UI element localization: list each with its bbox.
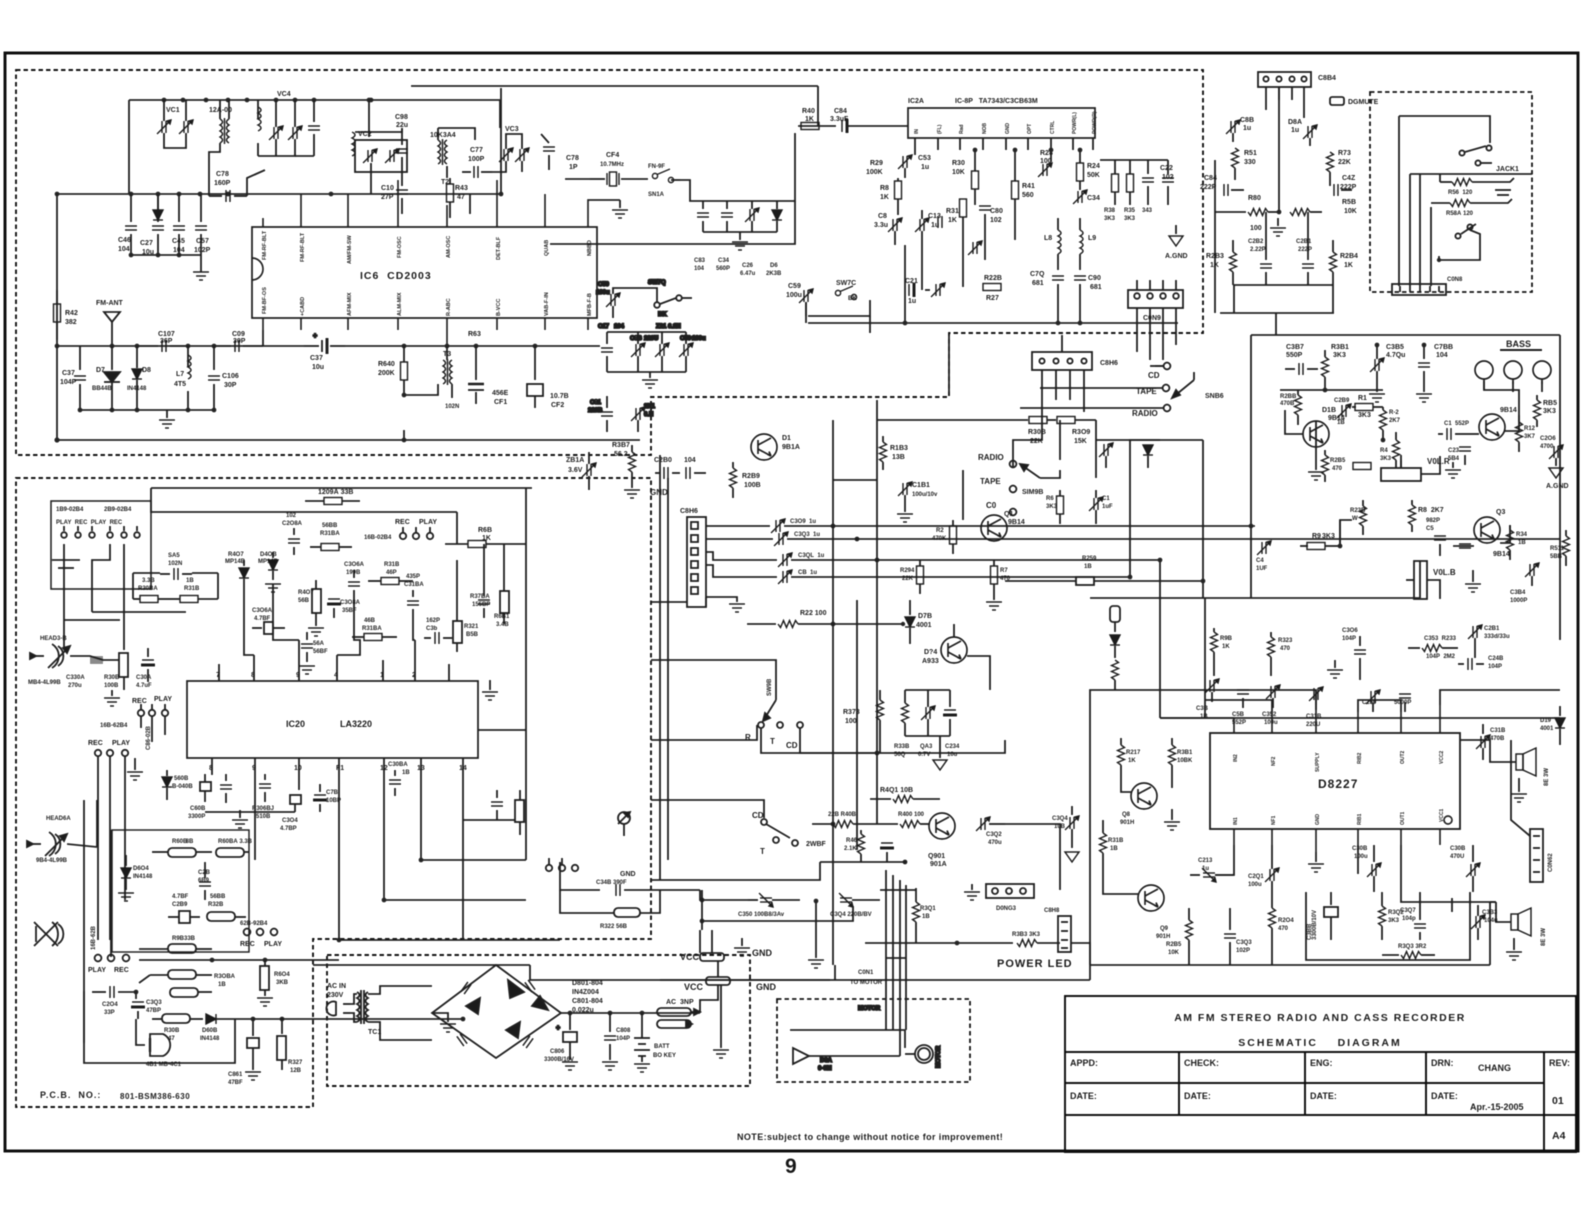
svg-text:4B1 MB-4C1: 4B1 MB-4C1 [146, 1062, 182, 1068]
ground bridge left [432, 1013, 456, 1032]
capacitor C2B 6B9 [199, 862, 211, 900]
capacitor C107 36P [137, 340, 188, 352]
electrolytic C861 47BF [247, 1019, 259, 1070]
svg-text:C8B: C8B [1240, 117, 1254, 124]
capacitor C10 27P [396, 172, 408, 214]
svg-text:C330A: C330A [66, 675, 85, 681]
svg-text:1B: 1B [186, 578, 194, 584]
svg-text:R43: R43 [455, 185, 468, 192]
svg-text:R31B: R31B [184, 586, 200, 592]
ground batt [634, 1064, 650, 1072]
wire mpx left vert [1214, 160, 1216, 313]
svg-text:C8H6: C8H6 [1100, 360, 1118, 367]
resistor R31BA 56BB [310, 544, 352, 551]
svg-text:IN: IN [914, 129, 920, 134]
svg-text:R22 100: R22 100 [800, 610, 827, 617]
diode QA3 0.7V [921, 690, 935, 736]
wire sp1 link [1460, 740, 1516, 762]
svg-text:C7B: C7B [326, 790, 339, 796]
svg-text:R217: R217 [1126, 750, 1141, 756]
ground sp2 [1506, 938, 1522, 960]
wire radio row long [1020, 407, 1164, 409]
capacitor C3B5 4.7Qu [1370, 345, 1384, 385]
wire vert x369 [368, 100, 370, 137]
svg-text:C37: C37 [62, 370, 75, 377]
svg-text:ZB1A: ZB1A [566, 457, 584, 464]
svg-text:R32B: R32B [208, 902, 224, 908]
svg-text:R3O9: R3O9 [1072, 429, 1090, 436]
wire bass drop [1484, 381, 1519, 415]
resistor R22 100 [747, 621, 905, 628]
svg-text:8E 3W: 8E 3W [1544, 768, 1550, 786]
svg-text:200K: 200K [378, 370, 395, 377]
wire amp left vert [1250, 335, 1252, 598]
op-amp U3 tape IC body [187, 681, 478, 758]
svg-text:R31B: R31B [384, 562, 400, 568]
svg-text:30P: 30P [233, 338, 246, 345]
svg-text:D19: D19 [1540, 718, 1552, 724]
svg-text:9B1A: 9B1A [782, 444, 800, 451]
node dots psu [568, 1011, 645, 1016]
svg-text:BATT: BATT [654, 1044, 670, 1050]
wire to IC pin [262, 330, 264, 346]
wire lower vert left [1204, 598, 1206, 718]
svg-text:9: 9 [785, 1155, 797, 1178]
ceramic filter CF2 10.7B [527, 346, 543, 408]
wire caps bottom rail [131, 254, 201, 256]
svg-text:104P: 104P [60, 379, 77, 386]
tuner section dashed frame [16, 70, 1203, 455]
wire mpx bottom rail long [808, 322, 1178, 324]
svg-text:R7: R7 [1000, 568, 1008, 574]
svg-text:3K3: 3K3 [1358, 412, 1371, 419]
svg-text:C2O4: C2O4 [102, 1002, 118, 1008]
IC6 bottom pin stubs [263, 318, 588, 345]
resistor R94 1B [1507, 525, 1514, 560]
wire rib1 [1357, 845, 1359, 874]
svg-text:RIB1: RIB1 [1357, 813, 1363, 825]
svg-text:Q9: Q9 [1160, 926, 1169, 932]
svg-text:D9A: D9A [820, 1058, 833, 1064]
capacitor C1 552P [1438, 428, 1463, 440]
svg-text:L7: L7 [176, 371, 184, 378]
svg-text:1u: 1u [921, 164, 929, 171]
svg-text:1u: 1u [931, 222, 939, 229]
switch jack sw2 [1437, 224, 1480, 262]
wire bottom bus drop [1489, 902, 1491, 965]
svg-text:6B9: 6B9 [198, 878, 210, 884]
capacitor C350 100B8/3Av [748, 893, 800, 907]
capacitor C4Z 222P [1334, 184, 1352, 196]
svg-text:GND: GND [1005, 123, 1011, 135]
svg-text:C3Q4: C3Q4 [1052, 816, 1068, 822]
resistor R22B R27 [983, 284, 1001, 291]
svg-text:R323: R323 [1278, 638, 1293, 644]
capacitor C7B 160P [209, 160, 265, 202]
svg-text:30P: 30P [224, 382, 237, 389]
svg-text:C46: C46 [118, 237, 131, 244]
svg-text:C34B 390F: C34B 390F [596, 880, 627, 886]
capacitor C90 681 [1074, 276, 1086, 296]
wire power row [1071, 943, 1090, 965]
resistor R2B3 1K [1230, 240, 1237, 285]
svg-text:3K7: 3K7 [1524, 434, 1536, 440]
svg-text:470u: 470u [988, 840, 1002, 846]
svg-text:2K1: 2K1 [644, 404, 656, 410]
svg-text:JACK1: JACK1 [1496, 166, 1519, 173]
wire center vertical x857 [856, 600, 858, 850]
svg-text:VCC: VCC [684, 982, 704, 992]
svg-text:QA3: QA3 [920, 744, 933, 750]
transistor Q3 [1474, 517, 1500, 543]
capacitor C250 1000P [1366, 690, 1380, 712]
svg-text:4: 4 [334, 672, 338, 679]
resistor R321 B5B [453, 610, 462, 652]
resistor R43 47 [447, 178, 454, 218]
svg-text:C24B: C24B [1488, 656, 1504, 662]
svg-text:1K: 1K [482, 535, 491, 542]
svg-text:BK: BK [658, 312, 667, 318]
wire lower row [820, 861, 905, 863]
svg-text:SW7Q: SW7Q [648, 280, 666, 286]
svg-text:C350 100B8/3Av: C350 100B8/3Av [738, 912, 785, 918]
svg-text:C3Q2: C3Q2 [986, 832, 1002, 838]
node dots center cross [831, 524, 908, 865]
svg-text:2B9-02B4: 2B9-02B4 [104, 507, 132, 513]
svg-text:C1: C1 [1102, 496, 1110, 502]
capacitor C22 102 [1162, 160, 1174, 205]
svg-text:1000P: 1000P [1510, 598, 1527, 604]
capacitor C106 30P [208, 346, 220, 410]
wire con9 drops [1137, 308, 1176, 360]
transistor Q1 9014 [981, 515, 1007, 541]
svg-text:456E: 456E [492, 390, 509, 397]
wire voll [1427, 580, 1440, 599]
svg-text:TAPE: TAPE [980, 477, 1001, 486]
svg-text:4.7BF: 4.7BF [172, 894, 189, 900]
varicap pair VC4 [258, 100, 302, 156]
wire mid links [1013, 420, 1042, 467]
pads REC/PLAY row2 [138, 704, 168, 716]
svg-text:C53: C53 [918, 155, 931, 162]
resistor R81 zig [1290, 209, 1322, 216]
svg-text:R2B9: R2B9 [742, 473, 760, 480]
wire jack verticals [1399, 116, 1431, 286]
svg-text:REC: REC [88, 740, 103, 747]
svg-text:R4: R4 [1380, 448, 1388, 454]
wire box1 step drop [948, 335, 950, 393]
svg-text:1uF: 1uF [1102, 504, 1113, 510]
svg-text:C3Q3: C3Q3 [146, 1000, 162, 1006]
capacitor C306 104P [1354, 636, 1366, 670]
capacitor C3B 1B [1205, 679, 1219, 702]
svg-text:T: T [760, 847, 765, 856]
svg-text:3.6V: 3.6V [568, 467, 583, 474]
capacitor C31B 470B [1476, 724, 1490, 760]
resistor R6O4 3KB [260, 960, 269, 996]
svg-text:9B14: 9B14 [1500, 407, 1517, 414]
wire mpx bottom [1233, 284, 1333, 286]
svg-text:470B: 470B [1490, 736, 1505, 742]
wire sp2 link [1496, 902, 1511, 922]
svg-text:R3OBA: R3OBA [214, 974, 236, 980]
svg-text:IC-8P TA7343/C3CB63M: IC-8P TA7343/C3CB63M [955, 98, 1038, 105]
svg-text:2K3B: 2K3B [766, 271, 782, 277]
svg-text:1B: 1B [922, 914, 930, 920]
resistor R3B3 3K3 [955, 940, 1060, 947]
svg-text:TO MOTOR: TO MOTOR [850, 980, 883, 986]
svg-text:A.GND: A.GND [1546, 483, 1569, 490]
diode D19 4001 [1555, 706, 1565, 745]
switch SW1A [652, 169, 680, 183]
coil L4 [352, 132, 355, 156]
wire motor verts [886, 999, 906, 1056]
svg-text:102: 102 [286, 513, 297, 519]
svg-text:C0N9: C0N9 [1143, 315, 1161, 322]
svg-text:C2B2: C2B2 [1248, 239, 1264, 245]
resistor R90 1K [1211, 628, 1218, 662]
capacitor C6B 13P [295, 100, 320, 156]
svg-text:V0L.B: V0L.B [1433, 568, 1456, 577]
wire nf1 [1271, 845, 1273, 869]
svg-text:100u: 100u [692, 336, 706, 342]
wire bridge out [561, 1012, 700, 1014]
svg-text:R8 2K7: R8 2K7 [1418, 507, 1444, 514]
varicap VC2 block [355, 140, 407, 172]
capacitor R37BA 155BP [478, 590, 490, 618]
ground bypass [732, 232, 748, 250]
svg-text:C3B5: C3B5 [1386, 344, 1404, 351]
capacitor C3Q2 470u [976, 817, 1005, 831]
svg-text:33P: 33P [104, 1010, 115, 1016]
varicap C3QL 1u [778, 553, 1160, 567]
svg-text:C34: C34 [718, 258, 730, 264]
capacitor C3B4 100BP [1525, 563, 1539, 586]
svg-text:T: T [770, 737, 775, 746]
svg-text:IN2: IN2 [1233, 754, 1239, 762]
svg-text:Apr.-15-2005: Apr.-15-2005 [1470, 1102, 1524, 1112]
wire pin8 [588, 200, 620, 218]
plug DGMUTE [1330, 97, 1344, 105]
svg-text:VC3: VC3 [505, 126, 519, 133]
svg-text:36P: 36P [160, 338, 173, 345]
svg-text:C30B: C30B [1450, 846, 1466, 852]
node dots low [134, 990, 285, 1022]
wire mpx bottom long [1220, 312, 1334, 314]
svg-text:OUT2: OUT2 [1400, 750, 1406, 764]
svg-text:R8: R8 [880, 185, 889, 192]
wire SW1A to bypass row [680, 133, 795, 201]
svg-text:56BB: 56BB [210, 894, 226, 900]
wire c8h6 top link [1061, 335, 1063, 352]
svg-text:NF1: NF1 [1271, 815, 1277, 825]
svg-text:VC2: VC2 [358, 131, 372, 138]
svg-text:1B: 1B [402, 770, 410, 776]
svg-text:22B R40B: 22B R40B [828, 812, 857, 818]
ground agnd j [1065, 852, 1079, 862]
transformer T2 10K3A4 [438, 128, 475, 178]
wire lower row drops [1271, 648, 1475, 680]
wire bottom long bus [1090, 964, 1490, 966]
resistor R373 100 [877, 690, 884, 753]
svg-text:C107: C107 [158, 331, 175, 338]
capacitor C2O4 33P [92, 986, 136, 998]
varicap VC1 [157, 100, 193, 148]
node dots tape low [337, 858, 466, 1022]
svg-text:22K: 22K [1338, 159, 1351, 166]
wire pads col3 [123, 544, 125, 650]
resistor R327 12B [277, 1019, 286, 1070]
wire mpx row2 [1215, 211, 1246, 213]
svg-text:C8B4: C8B4 [1318, 75, 1336, 82]
coil L7 4T5 [188, 346, 191, 410]
svg-text:1K: 1K [880, 194, 889, 201]
ground c350 [808, 901, 824, 968]
svg-text:RB5: RB5 [1543, 400, 1557, 407]
resistor R30 10K [972, 150, 979, 205]
wire sa5 row [133, 572, 160, 574]
pin labels D8227 bottom rotated [1233, 808, 1445, 825]
wire volr-q2 [1421, 456, 1440, 474]
svg-text:SW7C: SW7C [836, 280, 856, 287]
wire lower links [1213, 662, 1215, 676]
svg-text:VC1: VC1 [166, 107, 180, 114]
wire below ic row [205, 811, 295, 813]
pin labels IC6 top (rotated) [262, 230, 593, 264]
capacitor C2B2 222P [1260, 248, 1272, 285]
svg-text:C30BA: C30BA [388, 762, 408, 768]
svg-text:100P: 100P [468, 156, 485, 163]
wire head2 link [67, 844, 97, 847]
diode D60B IN4148 [206, 1014, 253, 1024]
svg-text:C86-02B: C86-02B [146, 725, 152, 750]
svg-text:C31B: C31B [1306, 714, 1322, 720]
svg-text:104: 104 [694, 266, 705, 272]
svg-text:801-BSM386-630: 801-BSM386-630 [120, 1092, 190, 1101]
svg-text:MOTOR: MOTOR [858, 1006, 881, 1012]
ground sp1 [1511, 778, 1527, 802]
wire tape low verts [84, 800, 111, 1043]
svg-text:T2: T2 [441, 179, 449, 186]
svg-text:POWR(L): POWR(L) [1072, 112, 1078, 134]
resistor R60B 8B [152, 848, 212, 857]
svg-text:22u: 22u [396, 122, 408, 129]
svg-text:104P 2M2: 104P 2M2 [1426, 654, 1456, 660]
svg-text:C2Q1: C2Q1 [1248, 874, 1264, 880]
svg-text:C8: C8 [878, 213, 887, 220]
node dots amp [1128, 343, 1427, 584]
svg-text:FM-BF-OS: FM-BF-OS [262, 287, 268, 314]
wire bass stems [1484, 381, 1542, 392]
resistor R3B7 56.2 [629, 445, 636, 482]
svg-text:GND: GND [1315, 814, 1321, 826]
wire top right drop [456, 512, 458, 544]
wire right vert x470 [469, 194, 471, 214]
svg-text:104: 104 [1436, 352, 1448, 359]
transistor Q A933 [941, 637, 967, 663]
pin labels D8227 top rotated [1233, 750, 1445, 772]
wire amp input link [1202, 440, 1204, 598]
svg-text:104P: 104P [1342, 636, 1356, 642]
svg-text:C26: C26 [742, 263, 754, 269]
wire row3 drops [98, 756, 125, 940]
wire q3 in [1453, 545, 1474, 547]
svg-text:AC IN: AC IN [327, 983, 346, 990]
svg-text:R30B: R30B [164, 1028, 180, 1034]
svg-text:4.7BP: 4.7BP [280, 826, 297, 832]
svg-text:FM-ANT: FM-ANT [96, 300, 124, 307]
wire k row [700, 890, 748, 900]
capacitor C14 [938, 216, 942, 228]
wire amp right vert [1559, 335, 1561, 640]
svg-text:R1B3: R1B3 [890, 445, 908, 452]
svg-text:APPD:: APPD: [1070, 1058, 1098, 1068]
svg-text:382: 382 [65, 319, 77, 326]
ground mpx [1270, 218, 1286, 236]
ground A.GND triangle [1169, 225, 1183, 246]
resistor R40 1K [801, 123, 836, 130]
ground c8h6 [706, 597, 745, 612]
wire out network box [1306, 892, 1470, 960]
ground q1 [986, 594, 1002, 610]
svg-text:3K3: 3K3 [1388, 918, 1400, 924]
wire c3o6a to pin [337, 599, 360, 655]
svg-text:R2B3: R2B3 [1206, 253, 1224, 260]
wire k long bus [313, 964, 530, 966]
svg-text:C3Q3 1u: C3Q3 1u [794, 532, 820, 538]
svg-text:1B: 1B [1110, 846, 1118, 852]
svg-text:A933: A933 [922, 658, 939, 665]
svg-text:C50: C50 [680, 336, 692, 342]
wire c3h6 drops [1042, 370, 1084, 420]
svg-text:1K: 1K [1344, 262, 1353, 269]
svg-text:REV:: REV: [1549, 1058, 1570, 1068]
svg-text:R3Q3 3R2: R3Q3 3R2 [1398, 944, 1427, 950]
svg-text:4001: 4001 [1540, 726, 1554, 732]
svg-text:1P: 1P [569, 164, 578, 171]
svg-text:901H: 901H [1120, 820, 1134, 826]
svg-text:C5: C5 [1426, 526, 1434, 532]
capacitor C78 1P [541, 134, 555, 170]
svg-text:PLAY: PLAY [419, 519, 437, 526]
wire q1 stub [1315, 421, 1317, 447]
svg-text:C90: C90 [1088, 275, 1101, 282]
svg-text:C3O6A: C3O6A [344, 562, 365, 568]
head HEAD3-B [30, 644, 70, 668]
wire d8227 pin risers [1090, 690, 1560, 870]
svg-text:10K: 10K [952, 169, 965, 176]
coil L2 [258, 100, 261, 156]
resistor R400 100 [900, 821, 929, 828]
svg-text:C3B7: C3B7 [1286, 344, 1304, 351]
op-amp U4 D8227 body [1210, 733, 1460, 829]
svg-text:R3B3 3K3: R3B3 3K3 [1012, 932, 1041, 938]
svg-text:C3O9 1u: C3O9 1u [790, 519, 816, 525]
svg-text:R33B: R33B [894, 744, 910, 750]
svg-text:1B: 1B [1337, 420, 1345, 426]
svg-text:C1B1: C1B1 [912, 482, 930, 489]
svg-text:100: 100 [1250, 225, 1262, 232]
ground 56a [299, 666, 315, 674]
svg-text:230V: 230V [327, 992, 344, 999]
connector block 1B9-02B4 [51, 501, 151, 589]
wire pads col2 [92, 544, 110, 612]
svg-text:56BB: 56BB [322, 523, 338, 529]
svg-text:C3QL 1u: C3QL 1u [798, 553, 825, 559]
wire top right drop [499, 100, 501, 128]
svg-text:DATE:: DATE: [1431, 1091, 1458, 1101]
svg-text:0-0M: 0-0M [818, 1066, 832, 1072]
